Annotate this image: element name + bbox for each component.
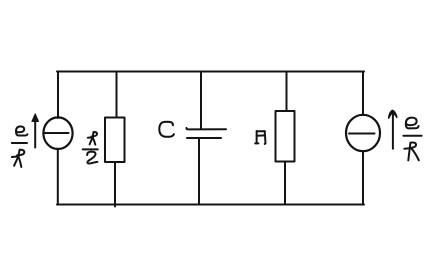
wire: resistor R top lead <box>286 72 288 112</box>
label: R <box>255 131 265 144</box>
resistor R (body) <box>276 111 295 162</box>
label: R/2 value (fraction) <box>83 132 98 164</box>
arrow: I2 current direction (up) <box>389 110 397 148</box>
wire: resistor R/2 bottom lead <box>114 162 116 207</box>
wire: left source bottom lead <box>57 149 59 205</box>
wire: resistor R bottom lead <box>284 162 286 205</box>
wire: bottom bus (node 0) <box>57 204 364 206</box>
label: I1 value e/R (fraction) <box>12 126 28 167</box>
label: I2 value e/R (fraction) <box>403 118 421 161</box>
wire: capacitor C bottom lead <box>198 138 200 205</box>
resistor R/2 (body) <box>105 118 125 163</box>
current source I2 (right, e/R) <box>346 115 380 151</box>
wire: top bus (node 1) <box>57 71 364 73</box>
current source I1 polarity bar <box>45 132 69 134</box>
arrow: I1 current direction (up) <box>32 114 39 148</box>
wire: capacitor C top lead <box>200 72 202 130</box>
wire: left source top lead <box>57 72 59 119</box>
capacitor C top plate <box>186 128 226 129</box>
current source I2 polarity bar <box>349 133 375 135</box>
wire: right source top lead <box>362 72 364 116</box>
current source I1 (left, e/R) <box>43 117 72 149</box>
capacitor C bottom plate <box>187 137 221 139</box>
label: C <box>159 122 174 137</box>
wire: resistor R/2 top lead <box>116 72 118 118</box>
wire: right source bottom lead <box>362 151 364 204</box>
